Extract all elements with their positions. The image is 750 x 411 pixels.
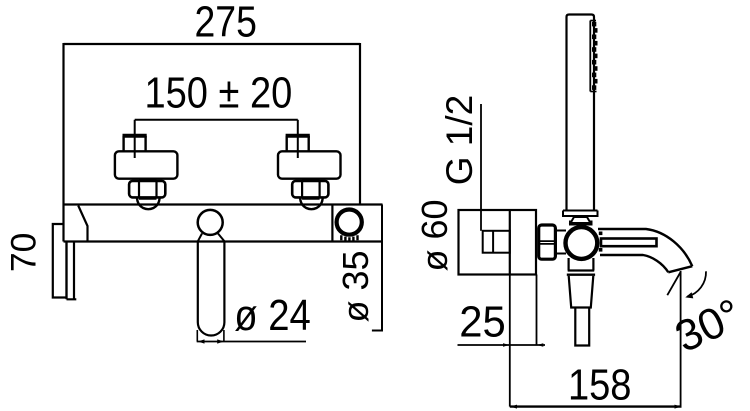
- G 1/2 leader line: [480, 104, 482, 231]
- right union: hex nut: [292, 180, 328, 199]
- 25 dimension line: [458, 344, 546, 346]
- 30 degree vertical extension: [680, 271, 682, 407]
- 25 arrow right: [537, 343, 543, 347]
- spray strip inner line: [589, 21, 591, 92]
- spray nozzle dots: [592, 22, 598, 90]
- wall nut (side view): [539, 225, 556, 259]
- connector between nut and ball: [555, 231, 566, 254]
- wall nut facet lines: [540, 241, 555, 244]
- mixer body bar top edge: [64, 203, 383, 205]
- 30 degree arc arrowhead: [685, 292, 693, 298]
- spout flare left: [198, 234, 202, 242]
- dim line 150: [135, 119, 298, 121]
- spout tube (front) with round cap: [198, 242, 225, 336]
- dim line 275: [64, 43, 361, 45]
- spout bottom edge: [600, 255, 668, 272]
- diverter knob circle (front): [337, 210, 362, 235]
- 30 degree arc: [687, 271, 706, 296]
- spout root tabs: [599, 232, 603, 236]
- knob section separator: [331, 205, 333, 242]
- spout flare right: [218, 234, 224, 242]
- spout top edge: [598, 229, 692, 266]
- spout outlet face: [668, 266, 692, 272]
- svg-text:158: 158: [568, 360, 631, 409]
- escutcheon and body column: [459, 210, 537, 275]
- extension line 150 right: [297, 120, 299, 158]
- extension line 275 left / body left edge: [62, 43, 64, 242]
- holder claw left: [569, 221, 572, 226]
- extension line 150 left: [134, 120, 136, 158]
- svg-text:150 ± 20: 150 ± 20: [144, 68, 292, 117]
- ø24 extension lines: [197, 330, 224, 342]
- lever lower strip: [67, 242, 77, 300]
- hose cone: [569, 276, 594, 308]
- spout collar circle (front): [198, 210, 223, 235]
- right union: bottom dome: [300, 197, 323, 209]
- svg-text:275: 275: [195, 0, 257, 46]
- left union: hex nut: [129, 180, 165, 199]
- knob knurl ticks: [341, 235, 357, 241]
- svg-text:25: 25: [459, 298, 505, 347]
- G 1/2 connection box: [483, 231, 510, 253]
- holder ring bottom band: [570, 222, 591, 225]
- 30 degree slanted line: [667, 272, 680, 295]
- 158 dimension line: [510, 405, 682, 407]
- svg-text:ø 60: ø 60: [414, 199, 455, 271]
- body right edge and ø35 extension: [381, 205, 383, 331]
- right union: wall flange: [278, 151, 341, 178]
- svg-text:ø 35: ø 35: [335, 250, 376, 322]
- ø24 arrow right: [217, 339, 224, 343]
- shower holder collar: [563, 211, 598, 217]
- holder ring trapezoid: [571, 217, 591, 223]
- left union: wall flange: [115, 151, 177, 178]
- hose cone top flange: [567, 274, 595, 276]
- spray strip top tick: [590, 20, 596, 22]
- svg-text:ø 24: ø 24: [234, 291, 311, 340]
- 25 extension right: [536, 275, 538, 346]
- hose connector under ball: [568, 258, 595, 271]
- mixer body bar bottom edge: [64, 240, 383, 242]
- spout inner tube rect: [601, 239, 657, 247]
- G 1/2 box divider: [492, 231, 494, 253]
- svg-text:70: 70: [4, 233, 44, 273]
- spray strip bottom tick: [590, 91, 596, 93]
- left union: top nut lip: [123, 134, 147, 138]
- ball joint circle (side): [566, 227, 598, 259]
- left union: pipe box: [124, 136, 146, 152]
- 158 arrow left: [511, 405, 518, 409]
- hand shower handle: [567, 15, 595, 210]
- 25 arrow left: [503, 343, 509, 347]
- hose end: [575, 308, 589, 346]
- ø24 dimension line: [197, 341, 306, 343]
- body column divider: [509, 210, 511, 275]
- holder claw right: [590, 221, 593, 226]
- extension line 275 right: [359, 43, 361, 205]
- 158 arrow right: [675, 405, 682, 409]
- 25 extension left / 158 left extension: [509, 275, 511, 407]
- right union: top nut lip: [286, 134, 310, 138]
- ø24 arrow left: [198, 339, 205, 343]
- right union: pipe box: [287, 136, 309, 152]
- body left end cap chamfer: [78, 206, 87, 242]
- ø35 foot tick: [372, 330, 383, 332]
- left union: bottom dome: [137, 197, 160, 209]
- svg-text:G 1/2: G 1/2: [439, 95, 480, 186]
- lever blade (front): [53, 224, 67, 298]
